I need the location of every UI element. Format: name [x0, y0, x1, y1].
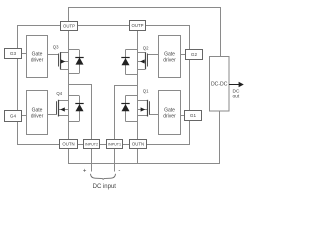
- diode D4 (antiparallel with Q4): [68, 96, 84, 122]
- gate driver U2 (upper right): [159, 36, 181, 78]
- svg-text:DC-DC: DC-DC: [211, 82, 228, 88]
- wire: INPUT2 terminal drop to DC input +: [91, 148, 93, 171]
- svg-text:G1: G1: [190, 113, 197, 118]
- terminal OUTN (right): [130, 140, 147, 149]
- gate driver U4 (lower left): [27, 91, 48, 135]
- terminal OUTN (left): [60, 140, 78, 149]
- svg-text:INPUT2: INPUT2: [85, 143, 98, 147]
- DC out arrow: [229, 82, 244, 87]
- svg-text:-: -: [118, 168, 120, 174]
- brace for DC input: [91, 174, 116, 180]
- wire: gate driver U3 to Q3 gate: [47, 54, 58, 56]
- wire: top DC+ bus from left OUTP terminal to DC-DC converter: [69, 8, 221, 58]
- diode D2 (antiparallel with Q2): [121, 50, 137, 75]
- gate driver U1 (lower right): [159, 91, 181, 135]
- DC-DC converter block U5: [210, 57, 230, 112]
- wire: gate driver U1 to G1 terminal: [180, 115, 184, 117]
- wire: gate driver U2 to G2 terminal: [180, 54, 185, 56]
- wire: right OUTN terminal drop to bottom bus: [137, 148, 139, 163]
- svg-text:G2: G2: [191, 52, 198, 57]
- wire: G4 terminal to gate driver U4: [21, 115, 26, 117]
- svg-text:driver: driver: [163, 58, 176, 64]
- terminal G4: [5, 111, 22, 122]
- svg-text:Gate: Gate: [32, 52, 43, 58]
- svg-text:Gate: Gate: [32, 108, 43, 114]
- terminal OUTP (right): [130, 21, 146, 31]
- svg-text:driver: driver: [31, 114, 44, 120]
- terminal INPUT1: [107, 140, 123, 149]
- svg-text:DC input: DC input: [93, 184, 117, 190]
- svg-text:Q3: Q3: [53, 45, 59, 50]
- terminal OUTP (left): [61, 22, 78, 31]
- terminal G2: [186, 50, 203, 60]
- wire: G3 terminal to gate driver U3: [21, 53, 26, 55]
- svg-text:+: +: [83, 169, 87, 175]
- wire: right leg vertical conductor: [137, 30, 139, 139]
- transistor Q1 (lower right switch): [137, 100, 149, 117]
- svg-text:driver: driver: [163, 114, 176, 120]
- svg-text:OUTN: OUTN: [132, 142, 144, 147]
- svg-text:Q2: Q2: [143, 45, 149, 50]
- wire: bottom DC- bus from left OUTN terminal to DC-DC converter: [69, 111, 220, 164]
- svg-text:OUTN: OUTN: [62, 142, 74, 147]
- transistor Q4 (lower left switch): [57, 100, 69, 117]
- diode D1 (antiparallel with Q1): [121, 96, 137, 122]
- terminal G1: [185, 111, 202, 121]
- wire: left leg midpoint branch to INPUT2 terminal: [68, 85, 92, 140]
- gate driver U3 (upper left): [27, 36, 48, 78]
- transistor Q3 (upper left switch): [59, 52, 69, 69]
- wire: gate driver U2 to Q2 gate: [147, 54, 158, 56]
- svg-text:DC: DC: [233, 88, 240, 94]
- terminal INPUT2: [84, 140, 100, 149]
- wire: gate driver U1 to Q1 gate: [149, 114, 158, 116]
- diode D3 (antiparallel with Q3): [68, 50, 84, 74]
- svg-text:Gate: Gate: [164, 108, 175, 114]
- terminal G3: [5, 49, 22, 59]
- svg-text:OUTP: OUTP: [132, 23, 144, 28]
- svg-text:G3: G3: [10, 51, 17, 56]
- svg-text:driver: driver: [31, 58, 44, 64]
- transistor Q2 (upper right switch): [137, 52, 147, 69]
- module boundary rectangle: [18, 26, 190, 145]
- wire: INPUT1 terminal drop to DC input -: [114, 148, 116, 171]
- wire: left leg vertical conductor: [68, 31, 70, 140]
- wire: right leg midpoint branch to INPUT1 terminal: [115, 86, 138, 140]
- label DC out: [233, 88, 240, 99]
- svg-text:G4: G4: [10, 114, 17, 119]
- svg-text:INPUT1: INPUT1: [108, 143, 121, 147]
- svg-text:OUTP: OUTP: [63, 24, 75, 29]
- svg-text:Q1: Q1: [143, 89, 149, 94]
- svg-text:Q4: Q4: [56, 91, 62, 96]
- svg-text:out: out: [233, 94, 240, 100]
- wire: gate driver U4 to Q4 gate: [47, 114, 56, 116]
- svg-text:Gate: Gate: [164, 52, 175, 58]
